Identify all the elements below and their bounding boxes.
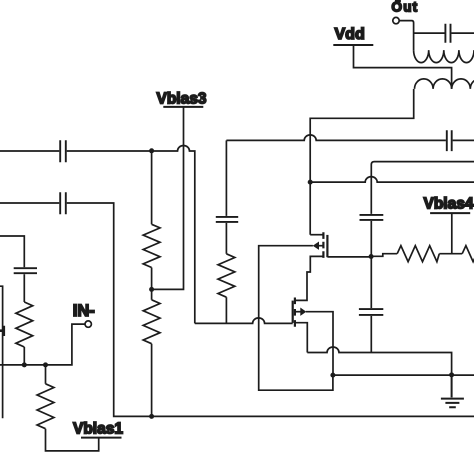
node dot (332.9,375.1) <box>330 373 335 378</box>
wire: input line 1 left segment (y=151) <box>0 150 59 152</box>
resistor R3L (left branch, x=24.3) <box>16 302 33 347</box>
transistor M1 drain stub up to M2 source jog <box>296 256 323 300</box>
wire: left edge stub y=286 down x=2.6 <box>0 286 3 418</box>
capacitor C3 (left branch series cap) <box>14 268 37 273</box>
capacitor C1 (series input cap on line 1) <box>60 140 66 162</box>
wire: source rail y=352.5 with hop over x=333, corner down at 451.6 <box>307 347 451 375</box>
power symbol Vbias3 bar <box>163 106 203 108</box>
resistor R1 (x=151.6, Vbias3 divider upper) <box>143 224 160 267</box>
transistor M2 gate bar <box>326 235 328 257</box>
wire: Vdd stem down and right to transformer tap <box>354 45 452 89</box>
node B dot (151.6,289.4) <box>149 287 154 292</box>
wire: C8 bottom to gate node <box>370 221 372 256</box>
wire: input line 2 to corner, down x=113.7, bottom rail y=416.4 <box>67 203 474 416</box>
capacitor C8 (on x=371.3 vertical) <box>360 215 384 220</box>
wire: node B down to R2 <box>151 289 153 299</box>
wire: R3L bottom to node row y=364.9 <box>23 347 25 365</box>
wire: gate node down to C5 <box>370 256 372 308</box>
wire: node A down to R1 <box>151 151 153 225</box>
node dot (24.3,364.9) <box>22 362 27 367</box>
wire: Vbias1 branch down from node (45.5,364.9) <box>45 365 47 384</box>
inductor L2 (secondary, arcs sag down from y=50.1) <box>414 50 474 63</box>
wire: y=140 line right of C6 <box>453 139 474 141</box>
wire: Out to corner down x=413.6 <box>399 21 413 50</box>
wire: C5 bottom to source rail <box>370 316 372 353</box>
wire: left branch y=236 corner down x=24.3 <box>0 236 24 267</box>
power symbol Vbias4 bar <box>430 212 470 214</box>
wire: M2 drain up x=310.2 to y=118.3, right to transformer <box>310 89 414 235</box>
transistor M1 source stub <box>296 323 308 353</box>
resistor R3 (horizontal, gate bias) <box>397 246 439 262</box>
svg-text:Vbias4: Vbias4 <box>424 196 474 213</box>
transistor M2 gate wire to gate node <box>327 256 371 258</box>
wire: R2 bottom to bottom rail <box>151 344 153 417</box>
wire: bulk return detour y=390.2 up to M2 bulk stub <box>259 246 333 391</box>
wire: ground rail y=375 to right edge <box>333 374 474 376</box>
wire: input line 2 left segment (y=203) <box>0 202 59 204</box>
transistor M1 channel dashes <box>294 298 296 327</box>
svg-text:IN-: IN- <box>73 302 95 320</box>
transistor M2 drain stub <box>310 234 323 236</box>
svg-text:Vbias3: Vbias3 <box>157 91 207 108</box>
node dot gate node (370.9,256.3) <box>369 254 374 259</box>
inductor L1 (primary, arcs bulge up from y=88.9) <box>415 79 474 89</box>
transistor M1 bulk stub <box>296 311 301 313</box>
wire: input line 1 from C1 to node A, hop over Vbias3 stem, down to gate line <box>67 146 195 324</box>
power symbol Vbias1 bar <box>81 437 122 439</box>
node dot (310.2,182.1) <box>308 180 313 185</box>
wire: Vbias3 stem down to node B <box>152 107 184 290</box>
wire: node row y=364.9 to IN- corner <box>0 324 85 365</box>
resistor R_b1 (Vbias1 series resistor x=45.5) <box>37 384 54 429</box>
wire: feedback top corner y=140.4 from x=226.4 with hop over drain line <box>226 135 446 140</box>
label fragment (cropped glyph at left edge) <box>0 326 5 336</box>
transistor M2 bulk arrow (points left) <box>313 242 319 250</box>
wire: C4 to R4m <box>225 223 227 254</box>
wire: y=33.1 line from x=413.6 to C7 <box>414 32 445 34</box>
wire: R3 to Vbias4 stem junction to R4 <box>439 253 462 255</box>
wire: R4m bottom tee into gate line <box>225 297 227 323</box>
capacitor C6 (series cap on y=140 line) <box>447 130 452 151</box>
wire: M1 bulk to ground node, down x=333 <box>306 312 333 375</box>
node A junction dot (151.6,150.7) <box>149 148 154 153</box>
wire: gate line y=323.4 with hop over bulk return at x=258.6 <box>195 318 293 324</box>
wire: y=161.6 line from rounded corner down to C8 <box>371 162 474 214</box>
wire: feedback branch down to C4 <box>225 140 227 216</box>
wire: Vbias4 stem <box>451 213 453 254</box>
capacitor C5 (M2 gate decoupling cap) <box>359 309 383 315</box>
svg-text:Vdd: Vdd <box>335 26 365 43</box>
node dot (451.6,374.9) <box>449 372 454 377</box>
power symbol Vdd bar <box>333 44 373 46</box>
transistor M2 channel dashes <box>322 232 324 258</box>
wire: R_b1 bottom U-shape to Vbias1 bar <box>46 429 99 451</box>
resistor R4 (horizontal, cropped at right edge) <box>462 246 474 262</box>
capacitor C4 (feedback cap x=226.4) <box>216 217 238 222</box>
wire: y=33.1 line right of C7 <box>451 32 474 34</box>
node dot (45.5,364.9) <box>43 362 48 367</box>
resistor R2 (x=151.6, Vbias3 divider lower) <box>143 300 160 344</box>
transistor M1 bulk arrow (points right) <box>300 308 306 316</box>
transistor M1 gate bar <box>292 301 294 323</box>
ground symbol <box>441 375 464 407</box>
capacitor C7 (series cap on y=33 line) <box>445 24 450 43</box>
terminal IN- open circle <box>85 321 91 327</box>
transistor M2 bulk stub from arrow base to channel <box>319 245 323 247</box>
node: bottom rail junction dot (151.6,416.4) <box>149 414 154 419</box>
svg-text:Out: Out <box>392 0 419 15</box>
wire: C3 bottom to resistor R3L <box>23 274 25 302</box>
terminal Out open circle <box>393 17 399 23</box>
wire: R1 bottom to node B <box>151 268 153 290</box>
svg-text:Vbias1: Vbias1 <box>73 421 123 438</box>
wire: y=182.1 line to right edge with hop over x=371.3 <box>310 177 474 183</box>
resistor R4m (feedback resistor x=226.4) <box>218 254 235 297</box>
capacitor C2 (series input cap on line 2) <box>60 192 66 214</box>
wire: gate node jog to R3 <box>371 254 397 257</box>
overbar above O of Out <box>395 0 401 2</box>
